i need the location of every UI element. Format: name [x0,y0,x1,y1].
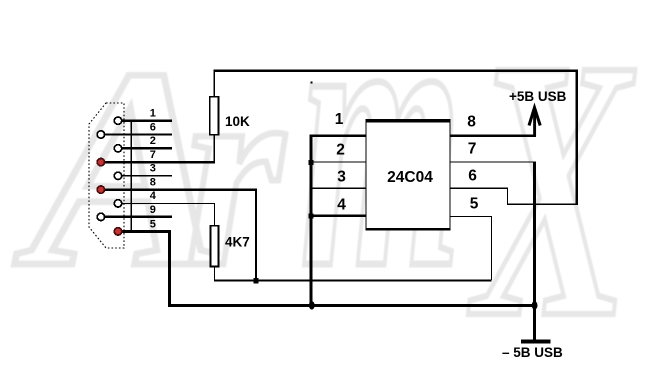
wire chip pin3 [310,188,367,189]
ground symbol [521,340,551,344]
wire DB9 pin3 lead [121,175,172,176]
wire DB9 pin1 lead [121,120,172,122]
svg-text:5: 5 [150,219,156,231]
wire chip pin1 [310,134,367,137]
wire 10K bottom stub [214,135,215,162]
svg-text:6: 6 [468,168,477,185]
svg-text:24C04: 24C04 [387,169,433,186]
svg-text:6: 6 [150,121,156,133]
wire right vertical x=577 [576,69,578,205]
pin DB9 9 [97,213,104,220]
svg-text:3: 3 [337,168,346,185]
wire DB9 pin5 lead [121,230,171,233]
svg-text:4K7: 4K7 [225,235,250,250]
svg-text:4: 4 [337,196,346,213]
connector DB9 outline [89,103,124,248]
wire DB9 pin8 lead [104,188,257,190]
wire right thick vertical to ground [533,161,536,341]
junction pin8 net [254,278,259,284]
wire 10K top stub [214,72,215,97]
wire chip left bus vertical [310,134,313,305]
svg-text:– 5B USB: – 5B USB [502,345,563,360]
svg-text:7: 7 [468,141,477,158]
wire net pin8/4K7/chip-pin5 horizontal [214,279,492,281]
power +5B USB arrow [529,108,540,137]
pin DB9 6 [97,131,104,138]
wire DB9 pin4 lead to 4K7 [121,203,215,204]
wire DB9 pin8 vertical drop [255,188,257,280]
wire chip pin5 segment a [450,216,492,217]
wire DB9 pin7 lead to 10K bottom [104,161,215,163]
wire top bus from 10K top to right side [213,69,578,72]
wire DB9 pin6 lead [104,133,172,135]
junction chip bus at pin4 [309,213,314,218]
junction chip bus to ground bus [309,301,315,309]
svg-text:5: 5 [470,196,479,213]
svg-text:2: 2 [336,142,345,159]
wire chip pin6 segment b [507,188,508,205]
wire chip pin7 [450,161,534,162]
pin DB9 2 [114,145,121,152]
svg-text:4: 4 [150,190,157,202]
pin DB9 5 red [114,228,121,235]
svg-text:+5B USB: +5B USB [509,89,567,104]
wire chip pin6 segment c [507,204,577,205]
wire DB9 pin9 lead [104,216,172,218]
junction ground bus right [532,301,538,309]
svg-text:8: 8 [150,176,156,188]
junction chip bus at pin2 [309,160,314,165]
wire 4K7 bottom stub [214,267,215,281]
wire DB9 pin2 lead [121,147,172,149]
wire bottom ground bus [168,304,536,307]
labels chip right pin numbers [467,114,479,213]
labels DB9 pin numbers [150,108,157,231]
svg-text:1: 1 [150,108,156,120]
pin DB9 4 [114,200,121,207]
pin DB9 7 red [97,158,104,165]
wire DB9 pin5 down vertical [168,230,171,307]
resistor 4K7 [211,226,219,267]
wire chip pin5 segment b [491,216,492,280]
IC 24C04 [365,119,450,230]
stray dot [311,82,313,84]
svg-text:2: 2 [150,135,156,147]
svg-text:10K: 10K [225,114,250,129]
resistor 10K [210,97,219,135]
wire chip pin2 [310,161,367,162]
wire chip pin6 segment a [450,188,508,189]
svg-text:7: 7 [150,149,156,161]
svg-text:9: 9 [150,204,156,216]
wire chip pin8 to +5V arrow [450,134,536,137]
pin DB9 1 [114,117,121,124]
svg-text:1: 1 [335,111,344,128]
svg-text:3: 3 [150,163,156,175]
pin DB9 8 red [97,186,104,193]
wire 4K7 top stub [214,203,215,226]
svg-text:8: 8 [467,114,476,131]
connector DB9 pin spine [131,120,133,233]
pin DB9 3 [114,172,121,179]
wire chip pin4 [310,214,367,217]
labels chip left pin numbers [335,111,347,213]
